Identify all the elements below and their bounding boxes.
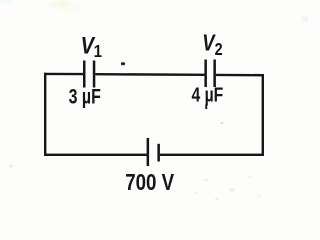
wire top-middle segment	[95, 73, 204, 76]
label V2	[202, 31, 222, 60]
stray ink dot on top wire	[121, 62, 125, 65]
value 3 µF	[69, 85, 101, 109]
wire bottom-left segment	[44, 154, 147, 156]
battery B1 long plate	[147, 138, 150, 166]
svg-text:700 V: 700 V	[125, 170, 174, 195]
wire bottom-right segment	[160, 154, 264, 156]
value 700 V	[125, 170, 174, 195]
svg-text:2: 2	[215, 40, 223, 60]
wire left side	[44, 73, 46, 156]
svg-text:4 µF: 4 µF	[192, 82, 224, 106]
svg-text:1: 1	[94, 41, 102, 62]
capacitor C1 (V1) plates	[83, 61, 95, 88]
battery B1 short plate	[157, 144, 160, 162]
value 4 µF	[192, 82, 224, 106]
svg-text:3 µF: 3 µF	[69, 85, 101, 109]
wire top-left segment	[44, 73, 83, 76]
value 4 µF mu-stem extension	[205, 104, 207, 109]
wire right side	[262, 74, 264, 156]
capacitor C2 (V2) plates	[204, 60, 216, 88]
label V1	[81, 32, 102, 62]
wire top-right segment	[216, 74, 264, 77]
